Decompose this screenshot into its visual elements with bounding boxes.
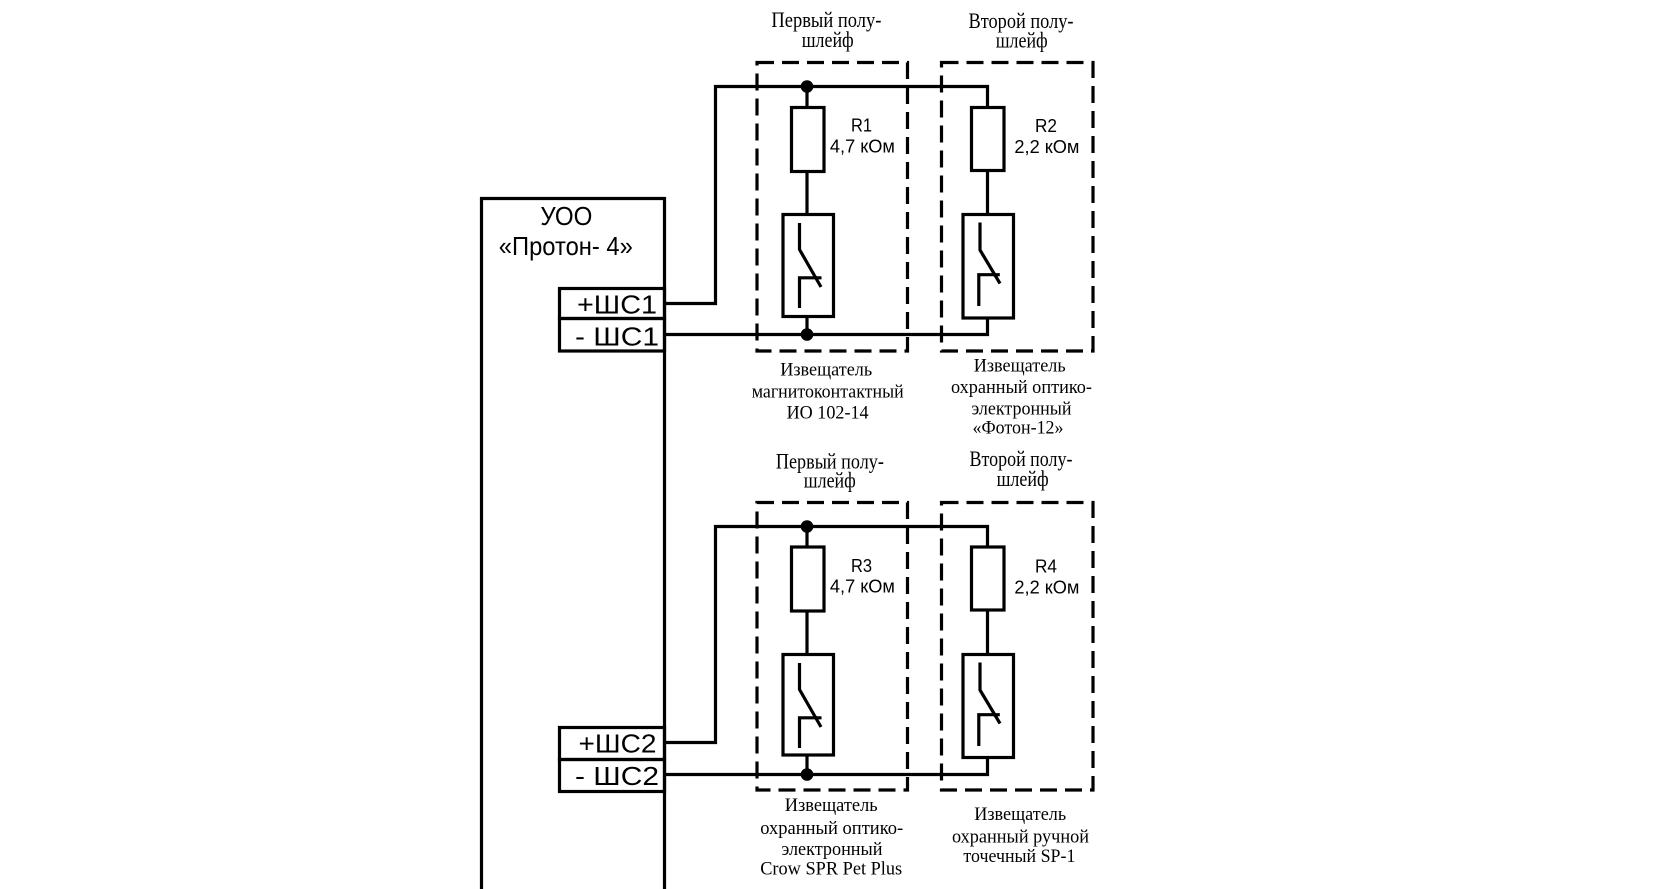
resistor R2	[972, 108, 1005, 171]
svg-text:УОО: УОО	[540, 201, 592, 231]
contact S3 blade	[800, 663, 822, 727]
svg-text:R4: R4	[1035, 555, 1057, 576]
node junction dot 2	[801, 328, 814, 341]
contact S4 blade	[980, 663, 1000, 724]
contact S4 fixed contact	[979, 715, 1000, 746]
wire +ШС1 to top rail to R2 top	[665, 87, 988, 304]
wire R1 to switch S1	[805, 172, 808, 215]
svg-text:R2: R2	[1035, 115, 1057, 136]
dashed zone box B second half-loop top	[942, 63, 1094, 352]
svg-text:Извещатель: Извещатель	[780, 360, 872, 381]
svg-text:R1: R1	[851, 115, 872, 136]
svg-text:«Протон- 4»: «Протон- 4»	[499, 231, 633, 261]
svg-text:2,2 кОм: 2,2 кОм	[1014, 136, 1079, 157]
svg-text:- ШС1: - ШС1	[575, 321, 659, 351]
svg-text:ИО 102-14: ИО 102-14	[787, 403, 869, 424]
svg-text:+ШС1: +ШС1	[577, 289, 657, 319]
dashed zone box A first half-loop top	[757, 63, 908, 352]
svg-text:шлейф: шлейф	[802, 27, 854, 52]
wire R3 to switch S3	[805, 611, 808, 655]
svg-text:«Фотон-12»: «Фотон-12»	[973, 418, 1064, 439]
resistor R4	[972, 547, 1005, 610]
control panel UOO Proton-4 box	[482, 199, 665, 889]
svg-text:R3: R3	[851, 555, 872, 576]
contact S1 blade	[800, 223, 822, 287]
node junction dot 3	[801, 520, 814, 533]
wire S3 to node4	[805, 755, 808, 775]
terminal -ШС2	[560, 760, 665, 792]
terminal +ШС2	[560, 728, 665, 760]
contact switch S3 box	[783, 655, 834, 756]
svg-text:охранный ручной: охранный ручной	[952, 826, 1089, 847]
svg-text:Извещатель: Извещатель	[785, 795, 878, 816]
node junction dot 1	[801, 80, 814, 93]
contact S3 fixed contact	[800, 718, 822, 748]
svg-text:2,2 кОм: 2,2 кОм	[1014, 576, 1079, 597]
wire R4 to switch S4	[986, 610, 989, 655]
svg-text:шлейф: шлейф	[996, 28, 1048, 53]
svg-text:Извещатель: Извещатель	[974, 356, 1066, 377]
svg-text:шлейф: шлейф	[997, 466, 1049, 491]
wire S1 to node2	[805, 317, 808, 335]
contact switch S4 box	[963, 655, 1014, 758]
contact S2 fixed contact	[979, 275, 1000, 306]
svg-text:- ШС2: - ШС2	[575, 761, 659, 791]
svg-text:шлейф: шлейф	[804, 468, 856, 493]
dashed zone box D second half-loop bottom	[942, 503, 1094, 791]
terminal -ШС1	[560, 319, 665, 352]
wire +ШС2 to lower top rail to R4 top	[665, 527, 988, 743]
svg-text:4,7 кОм: 4,7 кОм	[830, 576, 895, 597]
node junction dot 4	[801, 768, 814, 781]
wire node1 to R1	[805, 87, 808, 108]
svg-text:+ШС2: +ШС2	[579, 729, 657, 759]
wire R2 to switch S2	[986, 171, 989, 215]
contact switch S1 box	[783, 215, 834, 317]
svg-text:4,7 кОм: 4,7 кОм	[830, 136, 895, 157]
contact S1 fixed contact	[800, 278, 822, 308]
wire -ШС2 bottom rail to S4 bottom	[665, 758, 988, 775]
dashed zone box C first half-loop bottom	[757, 503, 908, 791]
resistor R1	[792, 108, 825, 172]
svg-text:охранный оптико-: охранный оптико-	[760, 818, 903, 839]
wire node3 to R3	[805, 527, 808, 548]
svg-text:Crow SPR Pet Plus: Crow SPR Pet Plus	[760, 859, 902, 880]
svg-text:Извещатель: Извещатель	[974, 804, 1066, 825]
wire -ШС1 bottom rail to S2 bottom	[665, 318, 988, 335]
svg-text:охранный оптико-: охранный оптико-	[951, 377, 1092, 398]
contact S2 blade	[980, 223, 1000, 284]
svg-text:электронный: электронный	[782, 839, 883, 860]
svg-text:точечный SP-1: точечный SP-1	[963, 846, 1075, 867]
terminal +ШС1	[560, 289, 665, 319]
resistor R3	[792, 547, 825, 611]
svg-text:магнитоконтактный: магнитоконтактный	[752, 382, 904, 403]
contact switch S2 box	[963, 215, 1014, 319]
